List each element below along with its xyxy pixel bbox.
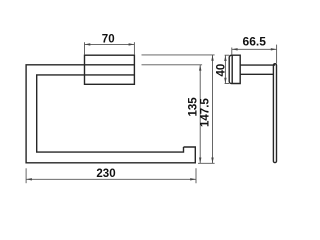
svg-text:135: 135 <box>187 97 199 117</box>
dim 70 extension right <box>133 42 135 55</box>
ring bar (side view) <box>273 64 276 163</box>
svg-text:70: 70 <box>102 33 115 45</box>
dim 230 extension left <box>25 168 27 183</box>
support arm top (side view) <box>240 64 275 66</box>
arrow 230 left <box>26 178 32 180</box>
dim 40 extension top <box>225 54 230 56</box>
dim 66.5 extension right <box>276 45 278 64</box>
svg-text:40: 40 <box>215 64 227 77</box>
arrow 40 bottom <box>224 78 226 84</box>
arrow 66.5 right <box>271 48 277 50</box>
arrow 70 left <box>85 43 91 45</box>
dim 70 line <box>85 43 135 45</box>
dim 70 extension left <box>84 42 86 55</box>
wall plate (side view) <box>229 55 240 83</box>
svg-text:66.5: 66.5 <box>243 35 267 49</box>
dim 135 extension top <box>142 64 203 66</box>
arrow 66.5 left <box>232 48 238 50</box>
dim 40 line <box>224 55 226 83</box>
arrow 147.5 top <box>211 55 213 61</box>
dim 66.5 extension left <box>231 48 233 55</box>
arrow 40 top <box>224 55 226 61</box>
dim 230 extension right <box>195 168 197 183</box>
dim 66.5 line <box>232 48 277 50</box>
towel ring outer profile (front view) <box>26 65 195 163</box>
svg-text:230: 230 <box>96 168 115 180</box>
dim bottom extension (135/147.5) <box>198 162 215 164</box>
dim 147.5 extension top <box>142 54 215 56</box>
arrow 135 bottom <box>199 158 201 164</box>
arrow 70 right <box>129 43 135 45</box>
dim 135 line <box>199 65 201 164</box>
plate cover edge line (side view) <box>231 55 233 83</box>
support arm bottom (side view) <box>240 73 273 75</box>
svg-text:147.5: 147.5 <box>200 98 212 127</box>
dim 230 line <box>26 178 196 180</box>
towel ring inner profile (front view) <box>37 75 184 152</box>
arrow 147.5 bottom <box>211 158 213 164</box>
arrow 135 top <box>199 65 201 71</box>
wall plate (front view) <box>85 55 135 84</box>
dim 40 extension bottom <box>225 83 230 85</box>
arrow 230 right <box>190 178 196 180</box>
dim 147.5 line <box>212 55 214 163</box>
